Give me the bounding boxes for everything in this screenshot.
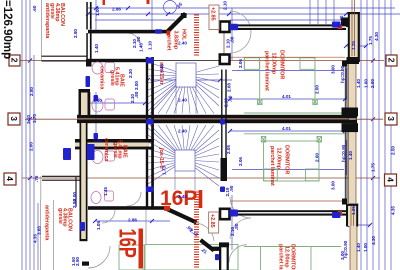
svg-text:3: 3 bbox=[386, 116, 396, 121]
svg-text:2.50: 2.50 bbox=[391, 146, 396, 155]
svg-text:1.90: 1.90 bbox=[93, 98, 102, 103]
svg-text:parchet laminat: parchet laminat bbox=[269, 146, 275, 186]
svg-text:1.60: 1.60 bbox=[364, 79, 369, 88]
svg-text:4.01: 4.01 bbox=[282, 126, 291, 131]
svg-text:.40: .40 bbox=[339, 15, 344, 22]
svg-text:3.70: 3.70 bbox=[32, 114, 37, 123]
svg-text:antiderapanta: antiderapanta bbox=[44, 205, 50, 241]
svg-text:2.06: 2.06 bbox=[238, 59, 243, 68]
svg-text:12.00mp: 12.00mp bbox=[276, 148, 282, 170]
svg-text:2: 2 bbox=[386, 58, 396, 63]
svg-text:2.90: 2.90 bbox=[75, 257, 80, 266]
svg-text:+2.85: +2.85 bbox=[209, 214, 215, 228]
svg-text:4.35: 4.35 bbox=[33, 234, 38, 243]
svg-text:1.40: 1.40 bbox=[94, 44, 99, 53]
svg-text:2.00: 2.00 bbox=[134, 81, 139, 90]
svg-text:.90: .90 bbox=[229, 185, 234, 192]
svg-text:1.40: 1.40 bbox=[348, 151, 353, 160]
svg-text:.80: .80 bbox=[228, 95, 233, 102]
svg-text:.80: .80 bbox=[230, 36, 235, 43]
svg-text:2.10: 2.10 bbox=[223, 1, 228, 10]
svg-text:ceramica: ceramica bbox=[103, 138, 109, 162]
svg-text:1.25: 1.25 bbox=[351, 206, 356, 215]
svg-text:1.25: 1.25 bbox=[351, 41, 356, 50]
svg-text:1.40: 1.40 bbox=[356, 79, 361, 88]
svg-text:.80: .80 bbox=[136, 36, 141, 43]
svg-text:2.40: 2.40 bbox=[178, 129, 187, 134]
svg-text:.80: .80 bbox=[234, 223, 239, 230]
svg-text:1.00: 1.00 bbox=[363, 243, 368, 252]
svg-text:=126.90mp: =126.90mp bbox=[1, 0, 13, 59]
svg-text:hp=0.90: hp=0.90 bbox=[340, 65, 345, 83]
svg-text:3.00: 3.00 bbox=[340, 251, 345, 260]
svg-text:1.10: 1.10 bbox=[148, 41, 153, 50]
svg-text:2.86: 2.86 bbox=[112, 7, 121, 12]
svg-text:antiderapanta: antiderapanta bbox=[44, 3, 50, 39]
svg-text:2.40: 2.40 bbox=[178, 98, 187, 103]
svg-text:12.00mp: 12.00mp bbox=[271, 53, 277, 75]
svg-text:.80: .80 bbox=[134, 91, 139, 98]
svg-text:DORMITOR: DORMITOR bbox=[279, 50, 285, 79]
svg-text:2.80: 2.80 bbox=[73, 29, 78, 38]
svg-text:4.30: 4.30 bbox=[374, 32, 379, 41]
svg-text:2.00: 2.00 bbox=[370, 79, 375, 88]
svg-text:3.00: 3.00 bbox=[331, 181, 336, 190]
svg-text:1.45: 1.45 bbox=[139, 43, 144, 52]
svg-text:2.05: 2.05 bbox=[226, 145, 231, 154]
svg-text:4.01: 4.01 bbox=[282, 94, 291, 99]
svg-text:1.00: 1.00 bbox=[95, 7, 100, 16]
svg-text:gresie: gresie bbox=[112, 142, 118, 158]
svg-text:2.40: 2.40 bbox=[178, 194, 187, 199]
svg-text:1.75: 1.75 bbox=[368, 36, 373, 45]
svg-text:2.06: 2.06 bbox=[238, 157, 243, 166]
svg-text:parchet laminat: parchet laminat bbox=[278, 244, 284, 270]
svg-text:2.86: 2.86 bbox=[72, 199, 77, 208]
svg-text:3.65: 3.65 bbox=[37, 226, 42, 235]
svg-text:4.30: 4.30 bbox=[371, 236, 376, 245]
svg-text:2.40: 2.40 bbox=[178, 41, 187, 46]
svg-text:1.40: 1.40 bbox=[356, 243, 361, 252]
svg-text:4.35: 4.35 bbox=[391, 206, 396, 215]
svg-text:4: 4 bbox=[5, 176, 15, 181]
svg-text:2.00: 2.00 bbox=[29, 142, 34, 151]
svg-text:2.80: 2.80 bbox=[29, 87, 34, 96]
svg-text:parchet: parchet bbox=[165, 31, 171, 51]
svg-text:.60: .60 bbox=[32, 5, 37, 12]
svg-text:2.30: 2.30 bbox=[128, 69, 133, 78]
svg-text:parchet laminat: parchet laminat bbox=[264, 51, 270, 91]
svg-text:hp=0.90: hp=0.90 bbox=[341, 144, 346, 162]
svg-text:3.46: 3.46 bbox=[160, 64, 165, 73]
svg-text:2.00: 2.00 bbox=[315, 153, 320, 162]
svg-text:3: 3 bbox=[9, 116, 19, 121]
svg-text:DORMITOR: DORMITOR bbox=[284, 145, 290, 174]
svg-text:ceramica: ceramica bbox=[99, 66, 105, 90]
svg-text:3.00: 3.00 bbox=[331, 65, 336, 74]
svg-text:4: 4 bbox=[385, 177, 395, 182]
svg-text:+2.85: +2.85 bbox=[209, 7, 215, 21]
svg-text:gresie: gresie bbox=[57, 208, 63, 224]
svg-text:1.90: 1.90 bbox=[93, 138, 102, 143]
svg-text:16P: 16P bbox=[114, 229, 141, 258]
svg-text:gresie: gresie bbox=[109, 70, 115, 86]
svg-text:3.10: 3.10 bbox=[26, 115, 31, 124]
svg-text:2.00: 2.00 bbox=[315, 85, 320, 94]
svg-text:.76: .76 bbox=[34, 175, 39, 182]
svg-text:HOL: HOL bbox=[180, 29, 186, 41]
svg-text:1.45: 1.45 bbox=[103, 187, 108, 196]
svg-text:2.68: 2.68 bbox=[226, 83, 231, 92]
svg-text:1.75: 1.75 bbox=[371, 163, 376, 172]
svg-text:1.05: 1.05 bbox=[96, 221, 101, 230]
svg-text:1.73: 1.73 bbox=[162, 166, 167, 175]
svg-text:2.86: 2.86 bbox=[128, 218, 137, 223]
